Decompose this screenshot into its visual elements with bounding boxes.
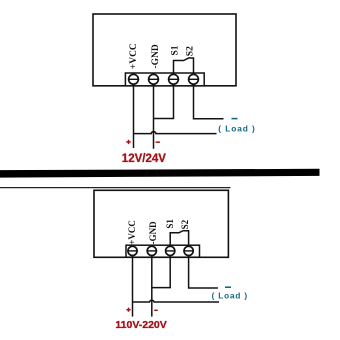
svg-text:( Load ): ( Load ) <box>218 124 255 134</box>
svg-text:S1: S1 <box>165 219 175 229</box>
svg-text:-GND: -GND <box>151 44 161 68</box>
svg-text:-GND: -GND <box>148 221 158 244</box>
svg-text:S2: S2 <box>186 46 196 56</box>
svg-text:( Load ): ( Load ) <box>212 292 248 301</box>
svg-text:110V-220V: 110V-220V <box>115 319 166 331</box>
svg-text:12V/24V: 12V/24V <box>122 153 166 165</box>
svg-text:S1: S1 <box>171 45 181 55</box>
svg-text:+VCC: +VCC <box>127 220 137 245</box>
svg-text:S2: S2 <box>180 219 190 229</box>
svg-text:+VCC: +VCC <box>129 43 139 69</box>
